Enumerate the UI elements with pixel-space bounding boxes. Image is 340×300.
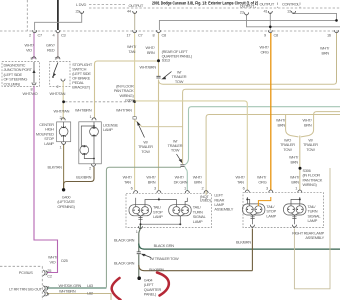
svg-text:BRN: BRN bbox=[278, 123, 286, 128]
svg-text:2: 2 bbox=[60, 115, 62, 120]
svg-text:WIRING): WIRING) bbox=[303, 182, 318, 187]
svg-text:BRN: BRN bbox=[322, 51, 330, 56]
svg-text:8: 8 bbox=[153, 33, 155, 38]
svg-text:USED): USED) bbox=[200, 198, 212, 203]
svg-text:C2: C2 bbox=[47, 274, 52, 279]
svg-text:1: 1 bbox=[90, 114, 92, 119]
svg-text:6: 6 bbox=[243, 185, 245, 190]
svg-text:WHT/BRN: WHT/BRN bbox=[75, 108, 92, 113]
svg-text:ORG: ORG bbox=[261, 50, 269, 55]
svg-text:2: 2 bbox=[29, 33, 31, 38]
svg-text:2: 2 bbox=[57, 84, 59, 89]
svg-text:OUTPUT: OUTPUT bbox=[240, 3, 255, 8]
svg-text:2: 2 bbox=[202, 186, 204, 191]
svg-text:22: 22 bbox=[76, 9, 80, 14]
svg-text:LAMP: LAMP bbox=[153, 214, 163, 219]
svg-text:BLACK GRN: BLACK GRN bbox=[154, 243, 175, 248]
svg-text:8: 8 bbox=[31, 56, 33, 61]
svg-text:WHT/TAN: WHT/TAN bbox=[116, 108, 132, 113]
svg-text:TAN: TAN bbox=[124, 180, 131, 185]
svg-text:6: 6 bbox=[131, 186, 133, 191]
svg-text:1: 1 bbox=[184, 186, 186, 191]
svg-text:23: 23 bbox=[240, 9, 244, 14]
svg-text:9: 9 bbox=[264, 33, 266, 38]
svg-text:WHT/VIO: WHT/VIO bbox=[23, 91, 38, 96]
svg-text:7: 7 bbox=[47, 285, 49, 290]
svg-text:ASSEMBLY: ASSEMBLY bbox=[214, 207, 233, 212]
svg-text:COLUMN): COLUMN) bbox=[4, 81, 21, 86]
svg-text:TOW: TOW bbox=[306, 147, 315, 152]
svg-text:WHT/BRN: WHT/BRN bbox=[140, 65, 157, 70]
svg-text:1: 1 bbox=[60, 145, 62, 150]
svg-text:TOW: TOW bbox=[171, 148, 180, 153]
svg-text:BLK/BRN: BLK/BRN bbox=[149, 267, 164, 272]
svg-text:BRN: BRN bbox=[194, 180, 202, 185]
svg-text:C3: C3 bbox=[61, 33, 66, 38]
svg-text:LAMP: LAMP bbox=[44, 141, 54, 146]
svg-text:BLK/TAN: BLK/TAN bbox=[48, 164, 63, 169]
svg-text:C7: C7 bbox=[138, 33, 143, 38]
svg-text:DK GRN: DK GRN bbox=[174, 180, 188, 185]
svg-text:TOW: TOW bbox=[141, 149, 150, 154]
svg-text:3: 3 bbox=[154, 186, 156, 191]
svg-text:WHT/DK GRN: WHT/DK GRN bbox=[59, 283, 82, 288]
svg-text:25: 25 bbox=[47, 268, 51, 273]
svg-text:BRACKET): BRACKET) bbox=[72, 85, 91, 90]
svg-text:LAMP: LAMP bbox=[193, 219, 203, 224]
svg-text:WHT/TAN: WHT/TAN bbox=[50, 91, 66, 96]
svg-text:BLK/BRN: BLK/BRN bbox=[236, 240, 251, 245]
svg-text:OPENING): OPENING) bbox=[57, 204, 75, 209]
svg-text:VIO: VIO bbox=[50, 260, 56, 265]
svg-text:TAN: TAN bbox=[237, 180, 244, 185]
svg-text:13: 13 bbox=[287, 9, 291, 14]
svg-text:OUTPUT: OUTPUT bbox=[129, 3, 144, 8]
svg-text:BRN: BRN bbox=[291, 180, 299, 185]
svg-text:BRN: BRN bbox=[304, 123, 312, 128]
svg-text:L62: L62 bbox=[87, 290, 93, 295]
svg-text:L DVD: L DVD bbox=[76, 2, 87, 7]
svg-text:L63: L63 bbox=[87, 283, 93, 288]
svg-text:BLACK GRN: BLACK GRN bbox=[114, 260, 135, 265]
svg-text:PCI BUS: PCI BUS bbox=[19, 270, 33, 275]
svg-text:41: 41 bbox=[264, 9, 268, 14]
svg-text:1: 1 bbox=[55, 56, 57, 61]
svg-text:VIO: VIO bbox=[26, 48, 32, 53]
svg-text:17: 17 bbox=[127, 33, 131, 38]
svg-text:LAMP: LAMP bbox=[308, 218, 318, 223]
svg-text:WHT/TAN: WHT/TAN bbox=[54, 109, 70, 114]
svg-text:2: 2 bbox=[89, 166, 91, 171]
svg-text:C8: C8 bbox=[162, 33, 167, 38]
svg-text:OUTPUT: OUTPUT bbox=[260, 2, 275, 7]
svg-text:G304: G304 bbox=[125, 97, 135, 102]
svg-text:C7: C7 bbox=[38, 33, 43, 38]
svg-text:LT RR TRN SIG OUT: LT RR TRN SIG OUT bbox=[9, 287, 43, 292]
svg-text:S313: S313 bbox=[162, 57, 170, 62]
svg-text:TOW: TOW bbox=[175, 79, 184, 84]
svg-text:WHT/BRN: WHT/BRN bbox=[59, 289, 76, 294]
svg-text:RED: RED bbox=[47, 48, 55, 53]
svg-text:C8: C8 bbox=[274, 33, 279, 38]
svg-text:TOW: TOW bbox=[283, 147, 292, 152]
svg-text:PANEL): PANEL) bbox=[144, 292, 157, 297]
svg-text:BLACK GRN: BLACK GRN bbox=[114, 237, 135, 242]
svg-text:16: 16 bbox=[327, 33, 331, 38]
svg-text:BRN: BRN bbox=[148, 180, 156, 185]
svg-text:1: 1 bbox=[136, 229, 138, 234]
svg-text:W/ TRAILER TOW: W/ TRAILER TOW bbox=[150, 256, 179, 261]
svg-text:1: 1 bbox=[295, 185, 297, 190]
svg-text:LAMP: LAMP bbox=[266, 213, 276, 218]
svg-text:TAN: TAN bbox=[129, 49, 136, 54]
svg-text:CONTROL: CONTROL bbox=[282, 2, 300, 7]
svg-text:BRN: BRN bbox=[291, 160, 299, 165]
svg-text:BRN: BRN bbox=[147, 50, 155, 55]
svg-text:ORG: ORG bbox=[258, 180, 266, 185]
svg-text:BLK/BRN: BLK/BRN bbox=[76, 174, 91, 179]
svg-text:LAMP: LAMP bbox=[103, 127, 113, 132]
svg-text:3: 3 bbox=[266, 185, 268, 190]
svg-text:ASSEMBLY: ASSEMBLY bbox=[305, 235, 324, 240]
svg-text:D25: D25 bbox=[61, 258, 67, 263]
